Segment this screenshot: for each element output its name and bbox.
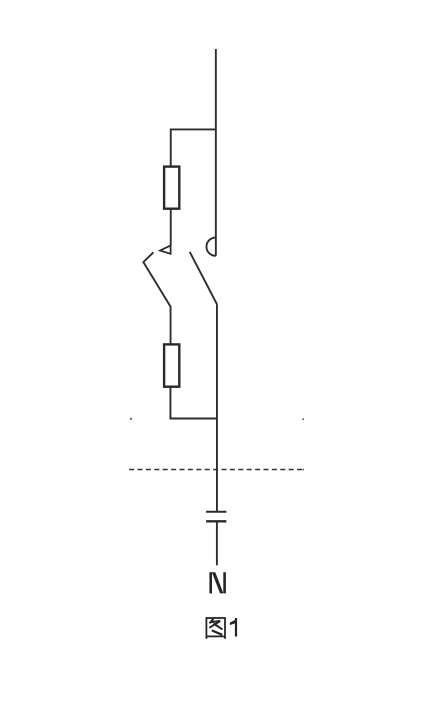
breaker contact arc (right pole) (206, 238, 215, 256)
node N label (drawn) (209, 572, 226, 593)
left contact arrowhead triangle (160, 245, 171, 253)
capacitor C bottom plate (206, 520, 226, 522)
wire right switch blade (190, 252, 217, 304)
left switch blade (143, 252, 170, 306)
wire below capacitor to N (216, 521, 218, 565)
dashed boundary line (129, 469, 302, 471)
resistor R2 (164, 344, 179, 386)
wire main vertical top (L line) (215, 49, 217, 256)
dashed line end tick (303, 469, 304, 471)
caption glyph 图 (drawn) (206, 618, 225, 639)
resistor R1 (164, 167, 179, 209)
wire mid vertical to capacitor (216, 304, 218, 511)
capacitor C top plate (206, 511, 226, 513)
dot right (302, 418, 304, 420)
wire between blade and R2 (170, 306, 172, 345)
wire between R1 and left contact (170, 209, 172, 246)
wire top branch to left (171, 129, 216, 166)
wire R2 to bottom junction (170, 387, 217, 419)
caption digit 1 (drawn) (230, 618, 237, 637)
dot left (130, 418, 132, 420)
